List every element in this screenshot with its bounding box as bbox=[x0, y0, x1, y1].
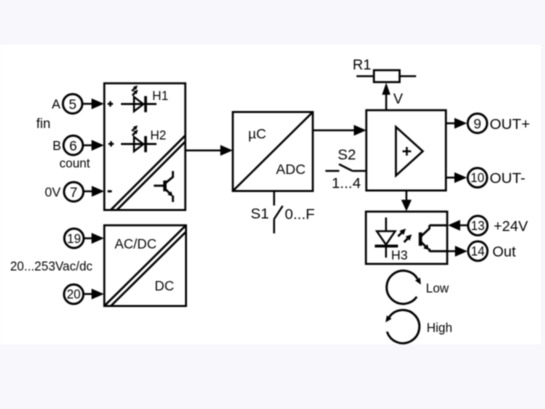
svg-text:A: A bbox=[52, 96, 61, 111]
wire ADC to amp bbox=[313, 129, 356, 131]
svg-text:20...253Vac/dc: 20...253Vac/dc bbox=[10, 259, 92, 273]
svg-text:0V: 0V bbox=[45, 185, 61, 200]
terminal 20 wire bbox=[84, 293, 93, 295]
terminal 7 bbox=[64, 182, 83, 201]
terminal 10 bbox=[468, 168, 487, 187]
LED H2 emission arrows bbox=[130, 124, 139, 137]
svg-text:Low: Low bbox=[426, 281, 450, 295]
terminal 6 wire bbox=[83, 144, 93, 146]
terminal 14 bbox=[468, 241, 487, 260]
wire input block to ADC bbox=[185, 149, 222, 151]
svg-text:count: count bbox=[59, 156, 90, 170]
svg-text:µC: µC bbox=[248, 126, 266, 142]
diagonal (uC block) bbox=[233, 112, 313, 191]
svg-text:9: 9 bbox=[474, 116, 482, 132]
svg-text:OUT+: OUT+ bbox=[490, 116, 531, 133]
minus sign row 0V bbox=[108, 190, 112, 192]
LED (H3, pointing down) bbox=[375, 218, 398, 258]
terminal 5 wire bbox=[82, 103, 93, 105]
terminal 13 bbox=[468, 216, 487, 235]
svg-text:20: 20 bbox=[67, 288, 81, 302]
terminal 9 bbox=[468, 114, 487, 133]
rotary arrow Low (clockwise) bbox=[387, 271, 418, 304]
transistor (input block) bbox=[154, 171, 173, 202]
svg-text:ADC: ADC bbox=[276, 161, 306, 177]
svg-text:H1: H1 bbox=[152, 89, 168, 103]
LED H1 bbox=[121, 96, 157, 112]
svg-text:7: 7 bbox=[70, 184, 78, 200]
white canvas bbox=[0, 45, 541, 345]
LED H1 emission arrows bbox=[130, 84, 139, 97]
isolation barrier (input block) bbox=[111, 136, 185, 210]
svg-text:V: V bbox=[393, 91, 403, 107]
wire H3 to Out bbox=[447, 250, 456, 252]
op-amp triangle bbox=[396, 127, 423, 176]
rotary arrow High (counterclockwise) bbox=[387, 310, 419, 343]
terminal 5 bbox=[63, 94, 82, 113]
svg-text:DC: DC bbox=[155, 279, 175, 294]
terminal 6 bbox=[63, 136, 82, 155]
wire amp down to H3 bbox=[405, 191, 407, 201]
wiper wire to R1 bbox=[385, 94, 387, 111]
svg-text:S2: S2 bbox=[338, 146, 356, 163]
svg-text:S1: S1 bbox=[251, 205, 269, 222]
output amplifier block bbox=[366, 110, 446, 190]
svg-text:0...F: 0...F bbox=[285, 206, 315, 223]
wire amp to OUT+ bbox=[446, 122, 456, 124]
svg-text:B: B bbox=[53, 138, 62, 153]
isolation barrier (AC/DC block) bbox=[104, 225, 186, 306]
ADC/uC block U1 bbox=[233, 112, 313, 191]
svg-text:10: 10 bbox=[470, 171, 484, 185]
svg-text:14: 14 bbox=[471, 245, 485, 259]
R1 leads bbox=[357, 75, 417, 77]
switch S2 bbox=[325, 164, 366, 171]
svg-text:19: 19 bbox=[67, 232, 81, 246]
input isolation block bbox=[104, 83, 185, 210]
terminal 20 bbox=[64, 285, 83, 304]
wire +24V into H3 bbox=[460, 224, 468, 226]
resistor R1 bbox=[374, 70, 400, 82]
svg-text:H2: H2 bbox=[150, 129, 166, 143]
svg-text:H3: H3 bbox=[391, 248, 408, 263]
wire amp to OUT- bbox=[446, 177, 456, 179]
terminal 19 wire bbox=[84, 237, 92, 239]
svg-text:High: High bbox=[427, 321, 453, 335]
switch S1 bbox=[274, 191, 283, 233]
svg-text:13: 13 bbox=[471, 219, 485, 233]
phototransistor (H3) bbox=[420, 225, 447, 251]
plus sign row B bbox=[108, 141, 113, 146]
svg-text:fin: fin bbox=[36, 116, 50, 131]
svg-text:5: 5 bbox=[69, 96, 77, 112]
svg-text:OUT-: OUT- bbox=[490, 170, 526, 187]
terminal 19 bbox=[64, 229, 83, 248]
LED H2 bbox=[121, 136, 157, 152]
plus sign row A bbox=[108, 101, 113, 106]
power supply block AC/DC bbox=[104, 225, 186, 306]
H3 light arrows bbox=[396, 226, 414, 244]
terminal 7 wire bbox=[84, 190, 93, 192]
svg-text:+24V: +24V bbox=[494, 219, 529, 235]
svg-text:AC/DC: AC/DC bbox=[115, 237, 157, 252]
optocoupler block H3 bbox=[366, 212, 447, 264]
plus sign (op-amp) bbox=[403, 147, 412, 156]
svg-text:R1: R1 bbox=[353, 58, 372, 74]
svg-text:1...4: 1...4 bbox=[332, 175, 361, 192]
svg-text:Out: Out bbox=[492, 245, 515, 261]
svg-text:6: 6 bbox=[69, 138, 77, 154]
